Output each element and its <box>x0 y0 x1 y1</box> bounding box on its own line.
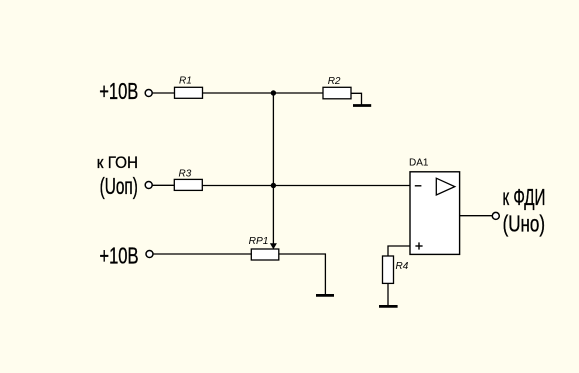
wire R4 to ground <box>387 283 389 305</box>
svg-text:+10В: +10В <box>99 244 138 269</box>
terminal bottom input <box>146 251 153 258</box>
wire RP1 to ground <box>279 254 326 294</box>
wire op-amp output <box>460 215 493 217</box>
svg-text:к ФДИ: к ФДИ <box>503 185 546 211</box>
potentiometer RP1 <box>251 249 278 260</box>
wire R1 to R2 <box>203 92 324 94</box>
wire terminal to R3 <box>152 184 175 186</box>
svg-text:RP1: RP1 <box>249 236 269 247</box>
svg-text:DA1: DA1 <box>409 158 429 169</box>
wire terminal to RP1 <box>153 253 252 255</box>
op-amp non-inverting pin mark <box>415 242 422 249</box>
ground (RP1) <box>316 294 334 297</box>
wire R3 to op-amp inverting input <box>202 185 410 187</box>
terminal top input <box>145 90 152 97</box>
junction node middle <box>271 183 276 188</box>
terminal output <box>492 212 499 219</box>
resistor R4 <box>383 256 394 283</box>
ground (R2) <box>353 104 371 107</box>
svg-text:+10В: +10В <box>99 80 138 105</box>
junction node top <box>271 90 276 95</box>
op-amp triangle symbol <box>436 178 455 195</box>
wire vertical junction to RP1 wiper <box>272 93 274 244</box>
svg-text:к ГОН: к ГОН <box>97 155 138 173</box>
op-amp DA1 <box>410 172 460 255</box>
wire R2 to ground <box>351 93 362 104</box>
ground (R4) <box>379 305 398 308</box>
op-amp inverting pin mark <box>415 185 422 187</box>
svg-text:(Uно): (Uно) <box>503 212 545 237</box>
resistor R3 <box>174 179 202 190</box>
wiper arrow of RP1 <box>270 243 277 249</box>
svg-text:R2: R2 <box>328 76 341 87</box>
wire op-amp non-inverting input to R4 <box>388 246 410 256</box>
svg-text:(Uоп): (Uоп) <box>100 174 138 200</box>
svg-text:R4: R4 <box>396 261 409 272</box>
svg-text:R3: R3 <box>179 168 192 179</box>
wire terminal to R1 <box>152 92 175 94</box>
svg-text:R1: R1 <box>179 75 192 86</box>
resistor R1 <box>175 87 203 98</box>
resistor R2 <box>323 87 351 99</box>
terminal reference input <box>145 182 152 189</box>
